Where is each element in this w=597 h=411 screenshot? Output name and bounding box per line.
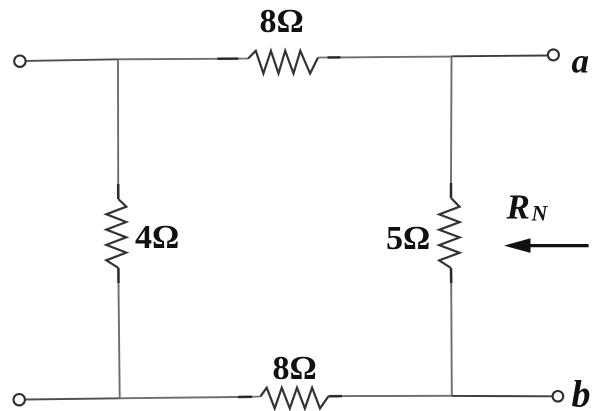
resistor R bottom 8ohm left lead stub [238,396,252,399]
arrow R_N pointing left [504,238,531,253]
svg-text:R: R [506,188,530,227]
svg-text:b: b [572,374,591,411]
svg-text:8Ω: 8Ω [260,3,304,40]
wire short gray before bottom zigzag [252,396,260,398]
resistor 8ohm top zigzag [248,51,318,74]
terminal node top-left [14,56,25,67]
resistor R left 4ohm top lead stub [117,184,120,199]
left rail upper segment [117,59,119,185]
wire top middle left rail to resistor lead [118,58,217,61]
wire short gray before zigzag [238,58,248,60]
wire top-left terminal to left rail [26,59,118,61]
resistor R right 5ohm top lead stub [450,183,453,198]
svg-text:a: a [572,42,590,81]
svg-text:4Ω: 4Ω [135,219,179,256]
terminal node a circle [548,49,559,60]
right rail lower segment [450,283,453,396]
terminal node bottom-left [14,394,25,405]
wire top middle resistor to right rail [341,56,452,59]
resistor 5ohm zigzag [439,198,459,268]
resistor R top 8ohm right lead stub [328,56,341,59]
resistor R right 5ohm bottom lead stub [450,268,453,283]
resistor 8ohm bottom zigzag [260,388,328,409]
wire short gray after zigzag [318,57,328,59]
wire bottom middle resistor to right rail [342,395,452,397]
resistor R bottom 8ohm right lead stub [329,395,343,398]
wire bottom-left terminal to left rail [26,398,120,399]
resistor R top 8ohm left lead stub [217,57,238,60]
wire bottom middle left rail to resistor lead [120,397,238,398]
left rail lower segment [119,283,120,398]
right rail upper segment [450,57,453,184]
wire right rail to terminal a [452,55,548,58]
resistor R left 4ohm bottom lead stub [117,268,120,283]
svg-text:8Ω: 8Ω [273,350,317,387]
svg-text:5Ω: 5Ω [386,220,430,257]
resistor 4ohm zigzag [106,199,126,268]
svg-text:N: N [531,201,549,226]
terminal node b circle [553,391,564,402]
wire right rail to terminal b [452,395,553,397]
